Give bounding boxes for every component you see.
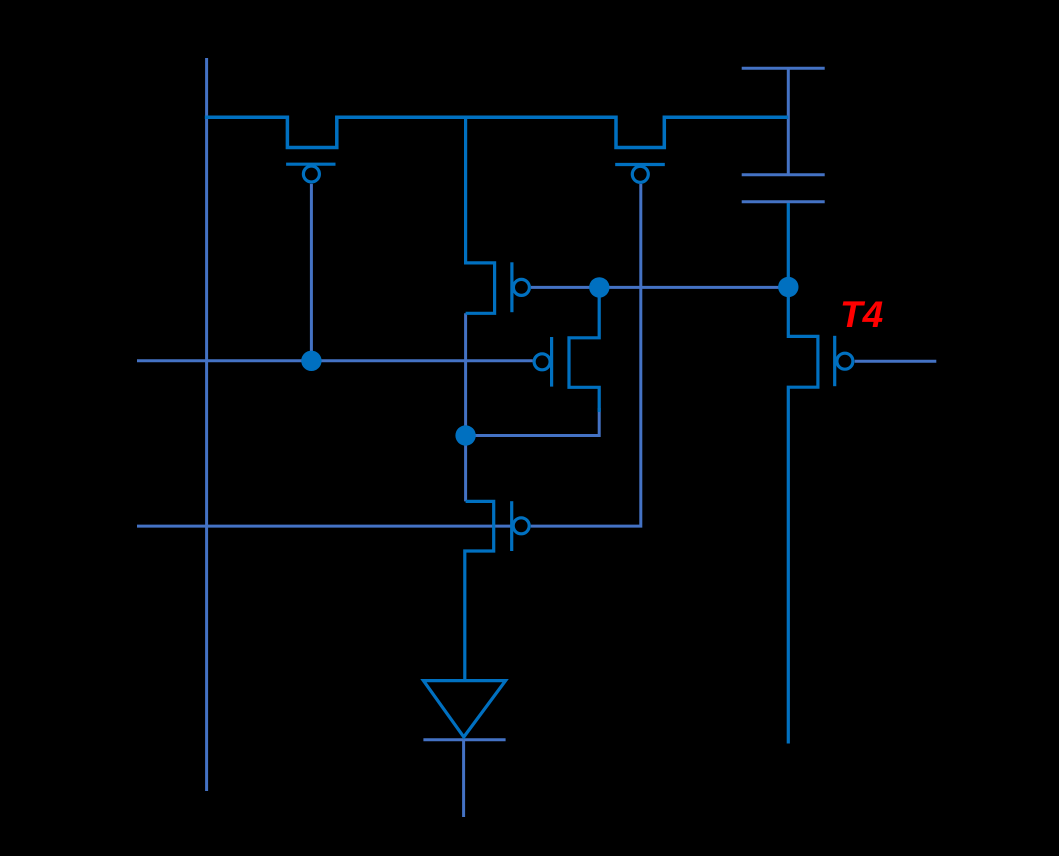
junction dot at T2/T3/T6 node [455,425,475,445]
wire: T1 gate drop to row 1 [310,184,313,361]
junction dot at capacitor / T4 drain node [778,277,798,297]
wire: node dot down to T6 drain [464,436,467,502]
transistor T4 gate bar [833,336,836,386]
transistor T6 gate bubble [513,518,529,534]
wire: VDD tee down to capacitor top plate [787,68,790,175]
transistor T3 gate bubble [534,354,550,370]
transistor T5 gate bar [615,163,665,166]
wire: storage node horizontal (T2 bubble to right node) [531,286,788,289]
wire: left vertical data bus [205,58,208,791]
transistor T2 channel path (drain from rail, staple, source) [466,117,495,313]
transistor T3 gate bar [550,337,553,387]
power bar: VDD tee at top right [742,67,825,70]
wire: T3 source to node dot (L shape) [466,408,600,436]
wire: T5 gate drop down and left to T6 bubble [531,184,641,526]
capacitor Cst bottom plate [742,200,825,203]
wire: scan row 2 (to T6 gate) [137,525,512,528]
transistor T3 channel path (drain from node, staple, source stub) [569,288,599,412]
wire: scan row 1 (to T3 gate) [137,359,533,362]
transistor T4 gate bubble [837,353,853,369]
wire: T2 source down to node dot [464,313,467,435]
transistor T1 gate bubble [303,166,319,182]
diode OLED triangle [423,681,505,737]
transistor T2 gate bar [510,262,513,312]
transistor T6 gate bar [510,501,513,551]
wire: OLED cathode tail down [462,740,465,817]
wire: T4 output to the right [855,360,937,363]
transistor T2 gate bubble [513,279,529,295]
svg-text:T4: T4 [840,294,883,335]
junction dot at T2 bubble line / T3 drain [589,277,609,297]
transistor T6 channel path (drain elbow, staple, source to diode) [465,501,494,680]
transistor T5 gate bubble [632,166,648,182]
diode OLED cathode bar [423,738,505,741]
junction dot on row 1 (T1 gate) [301,351,321,371]
power rail: top VDD rail with T1 and T5 channel dips [205,117,789,147]
transistor T1 gate bar [286,163,335,166]
transistor T4 channel path (from cap through node, staple, long source down) [788,203,818,744]
capacitor Cst top plate [742,173,825,176]
